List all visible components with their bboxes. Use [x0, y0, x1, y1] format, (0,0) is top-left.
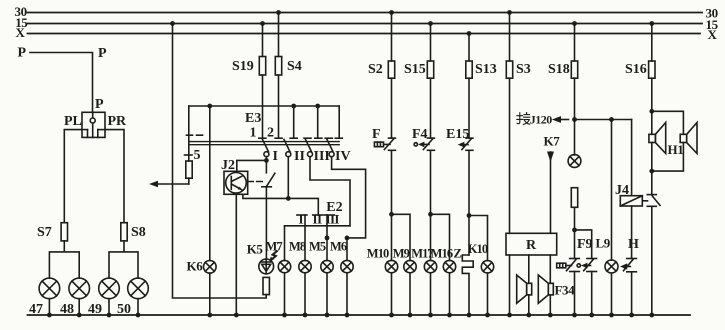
- wire M9 to ground: [409, 273, 411, 315]
- fuse S3: [506, 61, 512, 78]
- switch E15: [462, 138, 473, 150]
- switch F: [384, 138, 395, 150]
- arrow to J120: [556, 119, 569, 121]
- svg-text:P: P: [95, 97, 104, 112]
- J2 switch tick: [262, 186, 271, 188]
- wire bus15 to fuse S15: [430, 24, 432, 62]
- switch F manual actuator: [374, 142, 390, 147]
- junction dot horn bottom rail: [649, 169, 654, 174]
- wire bus30 to fuse S4: [278, 13, 280, 57]
- junction dot S4 on bus 30: [276, 10, 281, 15]
- svg-text:PR: PR: [108, 114, 128, 129]
- J2 switch blade: [267, 173, 275, 186]
- svg-text:X: X: [708, 27, 718, 42]
- E2 tick III: [324, 214, 334, 216]
- wire M17 to ground: [430, 273, 432, 315]
- junction dot J4 contact ground: [649, 313, 654, 318]
- svg-text:J120: J120: [530, 113, 553, 127]
- wire J2 bottom to ground: [235, 194, 237, 315]
- wire bus15 to fuse S16: [651, 24, 653, 62]
- K7 feed arrow wire: [550, 152, 552, 233]
- fuse S15: [427, 61, 433, 78]
- relay coil J4: [620, 196, 642, 206]
- wire fuse S3 to R box: [509, 78, 511, 233]
- svg-text:S7: S7: [37, 225, 52, 240]
- fuse S4: [275, 57, 281, 76]
- junction dot K6 ground: [207, 313, 212, 318]
- lamp M8: [299, 260, 311, 272]
- wire K10 to ground: [487, 273, 489, 315]
- contact tick 3: [290, 137, 297, 139]
- lamp M17: [424, 260, 436, 272]
- svg-text:P: P: [18, 46, 27, 61]
- fuse S2: [388, 61, 394, 78]
- wire bus30 to fuse S2: [391, 13, 393, 62]
- fuse S13: [466, 61, 472, 78]
- contact tick 6 (no stub): [325, 137, 332, 139]
- wire switch F4 down: [430, 150, 432, 260]
- lamp L9: [605, 260, 618, 273]
- junction dot J120 node: [572, 117, 577, 122]
- fuse S16: [649, 61, 655, 78]
- wire lamp 50 to ground: [137, 299, 139, 315]
- junction dots Z K10 ground: [467, 313, 490, 318]
- ground bus: [28, 314, 691, 316]
- wire speaker2 to ground: [549, 295, 551, 315]
- svg-text:M6: M6: [330, 240, 347, 254]
- pilot lamp (S18 column): [568, 155, 581, 168]
- E3 mechanical bar (double line): [189, 141, 339, 143]
- junction dot node I: [264, 158, 269, 163]
- wire lamp 47 to ground: [48, 299, 50, 315]
- switch H: [624, 259, 637, 272]
- wire fuse S18 down: [574, 78, 576, 155]
- wire resistor 5 bottom to arrow: [188, 178, 190, 184]
- svg-text:L9: L9: [596, 236, 611, 251]
- svg-text:PL: PL: [64, 114, 82, 129]
- wire contact II down: [287, 157, 289, 199]
- wire H to ground: [631, 272, 633, 315]
- svg-text:K10: K10: [468, 242, 488, 256]
- contact tick 1: [259, 137, 266, 139]
- fuse S7: [61, 223, 67, 241]
- junction dot S18 on bus 15: [572, 21, 577, 26]
- junction dot S2 on bus 30: [389, 10, 394, 15]
- wire speaker1 to ground: [528, 295, 530, 315]
- lamp 49: [99, 278, 120, 299]
- svg-text:2: 2: [267, 126, 274, 141]
- wire L9 to ground: [611, 273, 613, 315]
- svg-text:I: I: [299, 212, 304, 227]
- svg-text:M16: M16: [431, 247, 453, 261]
- svg-text:X: X: [16, 25, 26, 40]
- svg-text:F34: F34: [555, 283, 576, 298]
- junction dot M9 branch: [389, 212, 394, 217]
- svg-text:S15: S15: [404, 62, 426, 77]
- wire M10 to ground: [391, 273, 393, 315]
- H actuator arrow: [620, 263, 630, 269]
- speaker F34 right: [538, 275, 553, 303]
- svg-text:S18: S18: [548, 62, 570, 77]
- wire bus15 to fuse S19: [262, 24, 264, 57]
- contact circle IV: [329, 152, 334, 157]
- wire J2 output to E2 contact II: [243, 194, 318, 215]
- wire fuse S2 to switch F: [391, 78, 393, 138]
- wire fuse S19 to contact 1: [262, 75, 264, 138]
- wire node to L9/H columns: [575, 119, 632, 121]
- wire fuse S4 to contact 2: [278, 75, 280, 138]
- E2 tick I: [297, 214, 307, 216]
- switch F4 cam actuator: [414, 142, 429, 148]
- wire P feed: [30, 53, 93, 113]
- contact tick 5: [315, 137, 322, 139]
- J4 contact: [647, 195, 660, 207]
- contact circle II: [286, 152, 291, 157]
- lamp M6: [341, 260, 353, 272]
- svg-text:III: III: [314, 149, 330, 164]
- junction dot L9 tap: [609, 117, 614, 122]
- junction dot S13 on bus X: [467, 31, 472, 36]
- wire branch to K10: [469, 216, 488, 261]
- junction dot F9 branch: [572, 228, 577, 233]
- junction dot M5 rail: [325, 236, 330, 241]
- wire J4 contact to ground: [651, 206, 653, 315]
- junction dots M10 M9 ground: [389, 313, 412, 318]
- junction dot on bus 15 at x=172.5: [170, 21, 175, 26]
- junction dot J2 ground: [234, 313, 239, 318]
- wire E2 tick III to M5 lamp: [326, 215, 328, 260]
- wire resistor to F9: [574, 207, 576, 258]
- J2 dashed actuator link: [248, 181, 263, 183]
- junction dots F9 ground: [572, 313, 594, 318]
- blade I: [263, 140, 269, 152]
- wire bus30 to fuse S3: [509, 13, 511, 62]
- speaker F34 left: [517, 275, 532, 303]
- svg-text:K5: K5: [247, 242, 264, 257]
- svg-text:1: 1: [250, 126, 257, 141]
- svg-text:II: II: [294, 149, 305, 164]
- wire K6 to ground: [209, 273, 211, 315]
- junction dot S16 on bus 15: [649, 21, 654, 26]
- wire rail to M6 lamp: [346, 238, 348, 261]
- wire lamp 48 to ground: [78, 299, 80, 315]
- wire node I to J2 top: [237, 160, 267, 171]
- annotation arrow into resistor 5 branch: [156, 183, 189, 185]
- svg-text:F9: F9: [577, 237, 593, 252]
- svg-text:S2: S2: [368, 62, 383, 77]
- junction dot K6 tap: [207, 104, 212, 109]
- svg-text:47: 47: [29, 302, 43, 317]
- junction dot E3 contact tap 2: [315, 104, 320, 109]
- wire lamp 49 to ground: [108, 299, 110, 315]
- E2 tick II: [313, 214, 323, 216]
- LED K5: [259, 259, 274, 274]
- svg-text:H: H: [628, 237, 639, 252]
- svg-text:M7: M7: [266, 240, 283, 254]
- E3 top feed wire: [189, 105, 339, 107]
- svg-text:M9: M9: [393, 247, 410, 261]
- wire R to speaker 2: [549, 255, 551, 283]
- junction dots R speakers ground: [507, 313, 553, 318]
- horn top rail: [652, 111, 684, 134]
- svg-text:S19: S19: [232, 59, 254, 74]
- K5 flash arrow: [272, 251, 277, 259]
- svg-text:F4: F4: [412, 127, 428, 142]
- fuse S18: [571, 61, 577, 78]
- contact stub from tap 1: [293, 106, 295, 138]
- lamp M7: [278, 260, 290, 272]
- svg-text:K7: K7: [544, 134, 561, 149]
- svg-text:S16: S16: [625, 62, 647, 77]
- junction dot S3 on bus 30: [507, 10, 512, 15]
- wire M6 to ground: [346, 273, 348, 315]
- wire S7 to lamps 47/48: [49, 241, 79, 278]
- svg-text:S3: S3: [516, 62, 531, 77]
- switch F9 left contact: [567, 259, 580, 272]
- bus X line: [28, 33, 701, 35]
- svg-text:5: 5: [194, 148, 201, 163]
- svg-text:M8: M8: [289, 240, 306, 254]
- svg-text:S4: S4: [287, 59, 302, 74]
- svg-text:II: II: [313, 212, 322, 227]
- junction dot L9 ground: [609, 313, 614, 318]
- wire horn left down: [651, 143, 653, 195]
- switch F4: [423, 138, 434, 150]
- horn H1 left: [649, 123, 666, 154]
- dashed linkage left of E3 bar: [187, 134, 205, 136]
- wire J4 coil to switch H: [631, 206, 633, 259]
- svg-text:M10: M10: [367, 247, 389, 261]
- svg-text:S8: S8: [131, 225, 146, 240]
- wire node to J4 coil: [631, 120, 633, 196]
- label 接J120: [517, 113, 530, 125]
- wire fuse S16 to horns: [651, 78, 653, 134]
- horn H1 right: [680, 123, 697, 154]
- contact stub right end bend: [338, 106, 340, 138]
- wire J2 switch to K5: [265, 187, 267, 259]
- wire branch to M9: [392, 214, 411, 260]
- contact tick 4 (no stub): [304, 137, 311, 139]
- resistor (S18 column): [571, 188, 577, 208]
- bus 15 line: [28, 23, 703, 25]
- wire M7 to ground: [284, 273, 286, 315]
- wire contact I down to node: [265, 157, 267, 161]
- lamp M10: [385, 260, 397, 272]
- polarity tick of resistor 5: [185, 154, 193, 156]
- lamp 48: [69, 278, 90, 299]
- svg-text:E3: E3: [245, 111, 261, 126]
- junction dot M16 branch: [428, 212, 433, 217]
- switch box P (headlight switch): [82, 112, 105, 137]
- blade III: [306, 140, 312, 152]
- wire bus15 down to K5 resistor bottom: [173, 24, 267, 299]
- lamp M16: [443, 260, 455, 272]
- junction dot node II: [286, 196, 291, 201]
- relay J2 box: [224, 171, 248, 194]
- contact tick 7: [335, 137, 342, 139]
- wire S8 to lamps 49/50: [109, 241, 138, 278]
- svg-text:IV: IV: [335, 149, 351, 164]
- lamp M5: [321, 260, 333, 272]
- E2 bar wire: [285, 225, 351, 227]
- heater element Z: [462, 255, 473, 315]
- svg-text:I: I: [273, 149, 278, 164]
- link J4 coil to contact: [642, 200, 647, 202]
- wire E3 top to K6 lamp: [209, 106, 211, 261]
- lamp K10: [481, 261, 493, 273]
- wire horn right down / bottom rail: [652, 143, 684, 172]
- blade II: [284, 140, 290, 152]
- wire fuse S13 to switch E15: [468, 78, 470, 138]
- svg-text:48: 48: [60, 302, 74, 317]
- fuse S19: [259, 57, 265, 76]
- wire busX to fuse S13: [468, 34, 470, 62]
- wire F9 right to ground: [591, 272, 593, 316]
- wire M5 to ground: [326, 273, 328, 315]
- junction dot E3 contact tap 1: [291, 104, 296, 109]
- svg-text:P: P: [98, 46, 107, 61]
- wire tap to L9: [611, 120, 613, 261]
- lamp M9: [404, 260, 416, 272]
- svg-text:E15: E15: [446, 127, 469, 142]
- contact stub from tap 2: [317, 106, 319, 138]
- resistor 5: [186, 161, 192, 178]
- junction dot K10 branch: [467, 213, 472, 218]
- junction dots M17 M16 ground: [428, 313, 452, 318]
- wire branch to M16: [431, 214, 450, 260]
- svg-text:49: 49: [88, 302, 102, 317]
- junction dot horn top rail: [649, 109, 654, 114]
- switch E15 actuator arrow: [458, 142, 468, 148]
- svg-text:M5: M5: [309, 240, 326, 254]
- J2 switch stub: [265, 160, 267, 172]
- bus 30 line: [28, 12, 703, 14]
- J2 internal circle symbol: [226, 173, 247, 194]
- svg-text:H1: H1: [668, 142, 684, 157]
- junction dot H ground: [629, 313, 634, 318]
- junction dot S19 on bus 15: [260, 21, 265, 26]
- svg-text:R: R: [526, 238, 537, 253]
- wire bus15 to fuse S18: [574, 24, 576, 62]
- lamp K6: [204, 261, 217, 274]
- contact circle III: [308, 152, 313, 157]
- svg-text:F: F: [372, 127, 381, 142]
- wire F9 left to ground: [574, 272, 576, 316]
- F9 cam actuator: [577, 263, 590, 269]
- wire contact IV to M5/M6 rail: [332, 157, 366, 238]
- wire branch to F9 right contact: [575, 230, 592, 259]
- contact tick 2: [275, 137, 282, 139]
- wire switch F down: [391, 150, 393, 260]
- switch F9 right contact: [584, 259, 597, 272]
- fuse S8: [121, 223, 127, 241]
- blade IV: [327, 140, 333, 152]
- radio unit R: [506, 233, 557, 255]
- junction dot S15 on bus 15: [428, 21, 433, 26]
- lamp 50: [128, 278, 149, 299]
- contact circle I: [264, 152, 269, 157]
- junction dot M6 rail: [345, 236, 350, 241]
- wire PR to S8: [105, 130, 124, 223]
- wire R left to ground: [509, 255, 511, 315]
- junction dots lamps to ground: [47, 313, 140, 318]
- wire M8 to ground: [304, 273, 306, 315]
- wire PL to S7: [64, 130, 82, 223]
- svg-text:S13: S13: [475, 62, 497, 77]
- svg-text:50: 50: [117, 302, 131, 317]
- svg-text:Z: Z: [454, 247, 462, 261]
- F9 manual actuator: [557, 263, 572, 268]
- wire switch E15 down: [468, 150, 470, 255]
- wire E2 tick I to M8 lamp: [304, 215, 306, 260]
- wire M16 to ground: [449, 273, 451, 315]
- resistor of K5: [263, 277, 269, 294]
- wire E2 bar to M7 lamp: [284, 226, 286, 261]
- wire R to speaker 1: [528, 255, 530, 283]
- lamp 47: [39, 278, 60, 299]
- wire contact III to E2 bar: [310, 157, 350, 226]
- junction dots M7-M6 ground: [282, 313, 349, 318]
- wire resistor 5 top to E3 top wire: [188, 106, 190, 161]
- wire fuse S15 to switch F4: [430, 78, 432, 138]
- svg-text:K6: K6: [187, 259, 204, 274]
